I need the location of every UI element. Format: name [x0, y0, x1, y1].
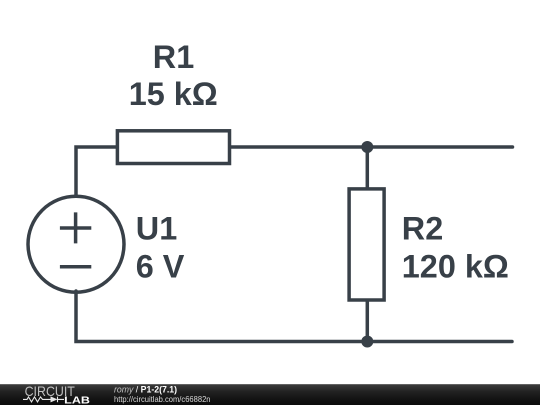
resistor R1 body: [117, 131, 229, 164]
resistor R2 body: [349, 189, 384, 300]
svg-text:120 kΩ: 120 kΩ: [402, 249, 509, 285]
svg-text:15 kΩ: 15 kΩ: [129, 76, 218, 112]
wire from U1 top to R1 left terminal: [76, 147, 117, 197]
footer bar background: [0, 384, 540, 405]
minus sign inside U1: [60, 265, 91, 269]
wire bottom rail from U1 to bottom-right end: [76, 291, 512, 342]
svg-text:U1: U1: [136, 211, 177, 247]
wire junction stub down to R2 top: [366, 147, 370, 190]
svg-text:http://circuitlab.com/c66882n: http://circuitlab.com/c66882n: [114, 394, 211, 404]
logo wire with resistor zigzag and diode: [23, 397, 64, 403]
svg-text:R1: R1: [153, 39, 194, 75]
wire from R2 bottom to bottom rail: [366, 299, 370, 342]
svg-text:6 V: 6 V: [136, 248, 185, 284]
plus sign inside U1: [60, 212, 91, 243]
svg-text:LAB: LAB: [64, 395, 90, 405]
voltage source U1 circle: [28, 196, 124, 292]
junction node at bottom of R2: [361, 336, 373, 348]
logo diode triangle: [51, 396, 58, 402]
svg-text:romy / P1-2(7.1): romy / P1-2(7.1): [114, 384, 177, 394]
svg-text:R2: R2: [402, 211, 443, 247]
wire from R1 right terminal to top-right end: [230, 145, 513, 149]
junction node at top of R2: [361, 141, 373, 153]
